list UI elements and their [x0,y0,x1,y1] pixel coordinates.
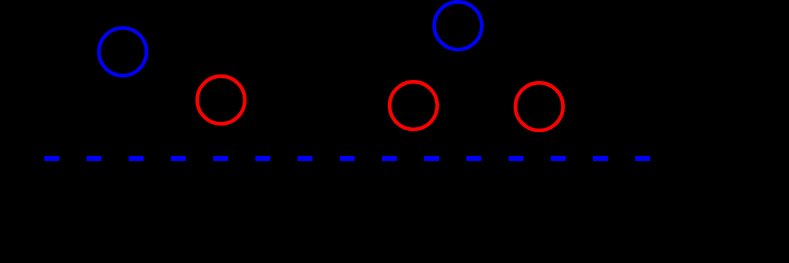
red circle 3 [515,83,563,131]
blue circle 2 (top) [434,2,482,50]
red circle 1 [197,76,245,124]
dashed axis line (blue) [44,156,650,161]
red circle 2 [390,82,438,130]
blue circle 1 (left) [99,28,147,76]
